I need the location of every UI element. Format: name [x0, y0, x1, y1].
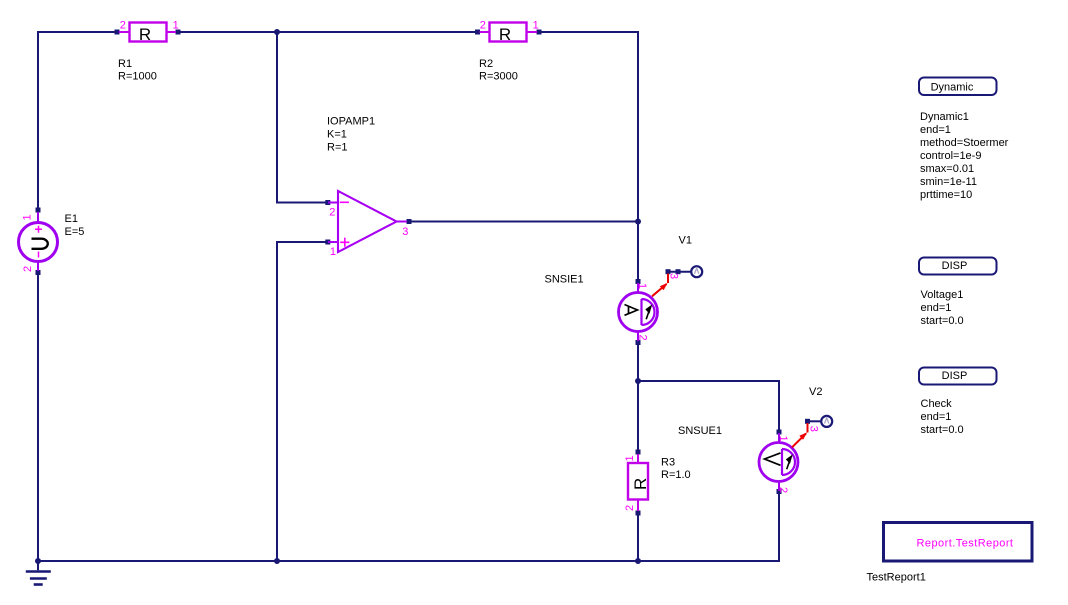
- V1 output probe: [666, 266, 703, 279]
- wire E1 bottom to bottom rail: [37, 272, 39, 562]
- wire R3 pin 2 to bottom rail: [637, 514, 639, 562]
- svg-text:2: 2: [777, 487, 789, 493]
- wire top rail middle: [177, 31, 478, 33]
- svg-text:SNSUE1: SNSUE1: [678, 425, 722, 437]
- svg-text:R3: R3: [661, 456, 675, 468]
- svg-text:3: 3: [402, 226, 408, 238]
- svg-text:R=3000: R=3000: [479, 71, 518, 83]
- Report.TestReport box: [884, 523, 1033, 562]
- resistor R1: [115, 20, 181, 45]
- svg-text:Check: Check: [921, 398, 953, 410]
- current sensor SNSIE1: [619, 279, 658, 345]
- svg-text:E1: E1: [65, 213, 78, 225]
- voltage source E1: [19, 208, 58, 276]
- svg-text:R: R: [139, 25, 151, 44]
- svg-text:Dynamic: Dynamic: [931, 82, 974, 94]
- Dynamic simulation box: [919, 78, 997, 96]
- svg-text:start=0.0: start=0.0: [921, 315, 964, 327]
- svg-text:2: 2: [480, 20, 486, 32]
- wire junction to V1 pin 1: [637, 222, 639, 281]
- junction node at op-amp output: [635, 219, 641, 225]
- svg-text:1: 1: [22, 214, 34, 220]
- svg-text:start=0.0: start=0.0: [921, 424, 964, 436]
- svg-text:R=1: R=1: [327, 142, 348, 154]
- svg-text:2: 2: [329, 207, 335, 219]
- wire V2 pin 2 down: [778, 493, 780, 562]
- svg-text:2: 2: [624, 505, 636, 511]
- svg-text:E=5: E=5: [65, 226, 85, 238]
- wire lower junction to R3 pin 1: [637, 381, 639, 451]
- op-amp U1 IOPAMP1: [325, 191, 411, 258]
- voltage sensor SNSUE1: [759, 430, 798, 495]
- DISP box Check: [919, 368, 997, 385]
- svg-text:R=1.0: R=1.0: [661, 469, 691, 481]
- svg-text:1: 1: [533, 20, 539, 32]
- wire V2 signal output: [808, 420, 822, 422]
- wire inverting net vertical and to op-amp pin 2: [277, 31, 327, 203]
- svg-text:SNSIE1: SNSIE1: [545, 273, 584, 285]
- svg-text:R: R: [631, 478, 650, 490]
- svg-text:prttime=10: prttime=10: [920, 189, 972, 201]
- junction node non-inverting at bottom rail: [274, 558, 280, 564]
- junction node ground corner: [35, 558, 41, 564]
- svg-text:2: 2: [637, 335, 649, 341]
- svg-text:1: 1: [624, 455, 636, 461]
- Check parameters: [921, 398, 964, 436]
- wire branch to V2 pin 1: [638, 381, 779, 431]
- svg-text:end=1: end=1: [921, 411, 952, 423]
- svg-text:1: 1: [636, 283, 648, 289]
- V2 output probe: [805, 416, 832, 432]
- svg-text:3: 3: [668, 273, 680, 279]
- svg-text:DISP: DISP: [942, 260, 968, 272]
- junction node at R1/R2 inverting input: [274, 29, 280, 35]
- svg-text:smax=0.01: smax=0.01: [920, 163, 974, 175]
- svg-text:R=1000: R=1000: [118, 71, 157, 83]
- svg-text:smin=1e-11: smin=1e-11: [920, 176, 977, 188]
- junction node below V1: [635, 378, 641, 384]
- wire top rail right and down to output junction: [538, 32, 638, 221]
- svg-text:end=1: end=1: [920, 124, 951, 136]
- svg-text:DISP: DISP: [942, 370, 968, 382]
- svg-text:R1: R1: [118, 58, 132, 70]
- svg-text:K=1: K=1: [327, 129, 347, 141]
- svg-text:Report.TestReport: Report.TestReport: [917, 538, 1014, 550]
- wire V1 pin 2 to lower junction: [637, 344, 639, 382]
- svg-text:1: 1: [173, 20, 179, 32]
- svg-text:V1: V1: [679, 234, 692, 246]
- svg-text:2: 2: [120, 20, 126, 32]
- ground: [26, 561, 51, 585]
- svg-text:end=1: end=1: [921, 302, 952, 314]
- wire op-amp output to junction: [408, 221, 638, 223]
- svg-text:R: R: [499, 25, 511, 44]
- svg-text:3: 3: [808, 426, 820, 432]
- wire V1 signal output: [668, 271, 691, 273]
- svg-text:Dynamic1: Dynamic1: [920, 111, 969, 123]
- Dynamic1 parameters: [920, 111, 1009, 201]
- wire top rail left: [37, 31, 117, 33]
- red probe arrow V2: [792, 423, 808, 447]
- svg-text:TestReport1: TestReport1: [867, 571, 926, 583]
- svg-text:R2: R2: [479, 58, 493, 70]
- svg-text:1: 1: [330, 246, 336, 258]
- svg-text:2: 2: [22, 266, 34, 272]
- wire non-inverting net to op-amp pin 1: [277, 242, 327, 562]
- svg-text:control=1e-9: control=1e-9: [920, 150, 981, 162]
- svg-text:method=Stoermer: method=Stoermer: [920, 137, 1009, 149]
- wire bottom rail: [37, 560, 780, 562]
- resistor R3: [624, 450, 650, 516]
- svg-text:Voltage1: Voltage1: [921, 289, 964, 301]
- svg-text:IOPAMP1: IOPAMP1: [327, 116, 375, 128]
- svg-text:V2: V2: [809, 386, 822, 398]
- svg-text:1: 1: [777, 436, 789, 442]
- junction node R3 at bottom rail: [635, 558, 641, 564]
- wire left vertical E1 top: [37, 31, 39, 211]
- Voltage1 parameters: [921, 289, 964, 327]
- DISP box Voltage1: [919, 258, 997, 275]
- resistor R2: [475, 20, 542, 45]
- red probe arrow V1: [652, 274, 668, 297]
